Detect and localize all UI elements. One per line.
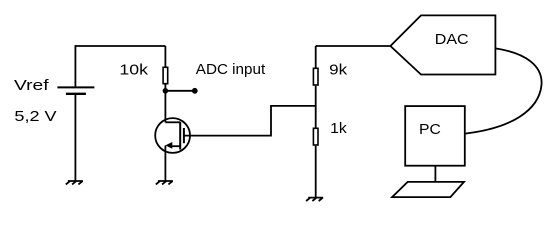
svg-text:1k: 1k [330, 120, 347, 137]
svg-text:10k: 10k [119, 61, 148, 78]
svg-text:5,2 V: 5,2 V [14, 108, 56, 125]
svg-text:DAC: DAC [435, 31, 469, 48]
svg-text:ADC input: ADC input [196, 61, 266, 78]
svg-text:Vref: Vref [14, 77, 50, 94]
svg-text:PC: PC [419, 121, 441, 138]
svg-text:9k: 9k [329, 61, 348, 78]
